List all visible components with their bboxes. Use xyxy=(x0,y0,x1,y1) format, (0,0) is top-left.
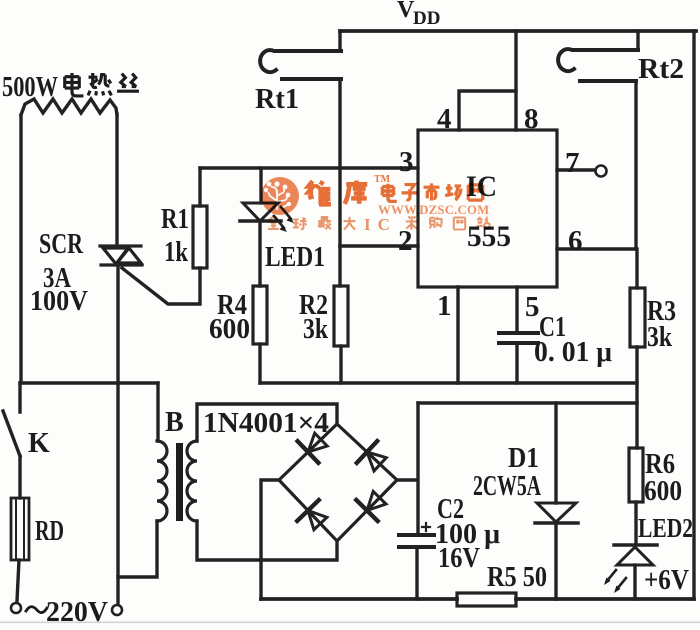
resistor R5 xyxy=(457,593,516,606)
heating element 500W zigzag xyxy=(21,99,117,115)
svg-text:8: 8 xyxy=(524,103,539,135)
svg-text:B: B xyxy=(165,407,184,438)
wire ground rail1 xyxy=(260,381,637,384)
label 220V tilde xyxy=(26,607,47,613)
LED LED2 xyxy=(614,545,657,565)
wire pin8 from VDD rail xyxy=(514,31,517,130)
LED2 emission arrows xyxy=(604,570,626,593)
svg-text:5: 5 xyxy=(525,291,540,323)
resistor R6 xyxy=(629,448,643,502)
svg-text:4: 4 xyxy=(437,103,452,135)
wire right edge vertical xyxy=(692,31,695,599)
svg-text:220V: 220V xyxy=(46,597,108,625)
diode bridge bottom-left xyxy=(297,500,327,530)
resistor R4 xyxy=(253,286,267,344)
resistor RD (fusible) xyxy=(11,498,29,560)
wire R6 to LED2 xyxy=(634,502,637,544)
wire Rt1 feed from VDD rail xyxy=(338,31,341,51)
svg-text:100V: 100V xyxy=(30,286,88,317)
watermark dianzishichangwang xyxy=(382,183,482,201)
wire pin6 stub xyxy=(557,247,636,250)
wire secondary bottom to bridge xyxy=(197,521,337,560)
node 220V right terminal xyxy=(112,605,122,615)
node 220V left terminal xyxy=(11,603,21,613)
switch K xyxy=(3,383,20,456)
wire mains rail xyxy=(20,381,158,384)
wire bottom rail xyxy=(261,597,694,601)
wire K to RD xyxy=(18,456,21,498)
wire +V rail2 xyxy=(418,401,637,404)
watermark logo circle xyxy=(261,177,299,215)
wire C2 to bottom rail xyxy=(415,547,418,599)
diode bridge top-right xyxy=(357,441,387,471)
wire R3 top from pin6 xyxy=(635,249,638,288)
svg-text:3: 3 xyxy=(399,146,414,178)
wire pin1 down xyxy=(456,287,459,383)
capacitor C1 xyxy=(499,333,538,343)
transformer B secondary winding xyxy=(187,441,197,521)
wire R4 to rail1 xyxy=(258,344,261,383)
resistor R2 xyxy=(334,286,348,346)
svg-text:600: 600 xyxy=(644,476,682,507)
svg-text:16V: 16V xyxy=(438,543,480,574)
wire bridge plus to C2 node xyxy=(397,478,417,481)
svg-text:2: 2 xyxy=(398,225,413,257)
wire Rt2 feed from VDD rail xyxy=(636,31,639,50)
svg-text:D1: D1 xyxy=(508,443,539,474)
node pin7 terminal xyxy=(596,166,607,177)
triac SCR xyxy=(100,246,142,265)
scan artifact bottom line xyxy=(0,622,700,624)
wire Rt1 down to pin2 node xyxy=(338,79,341,246)
rectifier bridge diamond xyxy=(279,424,397,541)
wire D1 feed xyxy=(554,403,557,503)
watermark weiku xyxy=(308,181,367,205)
svg-text:SCR: SCR xyxy=(39,229,84,260)
svg-text:LED1: LED1 xyxy=(265,242,325,273)
wire heater left drop xyxy=(19,115,22,383)
LED1 emission arrows xyxy=(274,207,294,232)
svg-text:Rt1: Rt1 xyxy=(255,84,299,115)
wire pin7 stub xyxy=(557,168,594,171)
wire D1 to bottom rail xyxy=(554,523,557,599)
diode bridge bottom-right xyxy=(356,491,386,521)
wire node A vertical to R2 xyxy=(338,246,341,286)
wire R1 top feed xyxy=(198,168,201,206)
svg-text:RD: RD xyxy=(35,516,64,547)
LED LED1 xyxy=(240,203,281,221)
wire C1 to ground rail xyxy=(515,345,518,383)
svg-text:1k: 1k xyxy=(164,237,188,268)
watermark slogan row xyxy=(268,216,490,230)
svg-text:K: K xyxy=(28,428,50,459)
zener D1 xyxy=(535,503,578,523)
C2 plus sign xyxy=(422,523,430,531)
thermistor Rt2 xyxy=(558,49,638,81)
resistor R3 xyxy=(630,288,645,347)
wire triac anode down xyxy=(116,267,119,604)
svg-text:DD: DD xyxy=(413,8,440,29)
svg-text:7: 7 xyxy=(565,147,580,179)
svg-text:R1: R1 xyxy=(161,204,189,235)
transformer B primary winding xyxy=(157,441,167,521)
svg-text:Rt2: Rt2 xyxy=(638,54,684,85)
svg-text:2CW5A: 2CW5A xyxy=(473,471,542,502)
svg-text:R5 50: R5 50 xyxy=(487,562,547,593)
wire pin5 down xyxy=(515,287,518,331)
wire LED1 anode feed xyxy=(259,168,262,203)
svg-text:3k: 3k xyxy=(303,314,328,345)
wire RD to terminal xyxy=(17,560,19,601)
svg-text:600: 600 xyxy=(209,314,250,345)
svg-text:3k: 3k xyxy=(647,322,672,353)
svg-text:TM: TM xyxy=(374,174,391,185)
op-amp IC 555 body xyxy=(418,130,557,287)
svg-text:1N4001×4: 1N4001×4 xyxy=(203,408,329,439)
svg-text:IC: IC xyxy=(364,215,397,234)
wire rail2 left drop xyxy=(416,403,419,533)
wire Rt2 down to pin6 xyxy=(634,81,637,249)
svg-text:500W: 500W xyxy=(2,72,58,103)
wire R1 bottom to gate xyxy=(122,268,200,304)
wire pin3 rail xyxy=(200,166,418,169)
capacitor C2 polarized xyxy=(399,535,434,547)
wire heater right drop to triac xyxy=(115,114,118,245)
diode bridge top-left xyxy=(298,433,328,463)
wire LED2 to bottom rail xyxy=(633,565,636,599)
wire pin4 loop xyxy=(459,91,516,130)
wire pin2 stub xyxy=(340,244,418,247)
transformer B core xyxy=(176,443,183,521)
svg-text:+6V: +6V xyxy=(644,565,689,596)
resistor R1 xyxy=(193,206,207,268)
wire primary bottom xyxy=(118,521,157,577)
label 500W heater chinese xyxy=(65,73,139,96)
wire R2 to rail1 xyxy=(339,346,342,383)
wire secondary top to bridge xyxy=(197,404,337,441)
svg-text:6: 6 xyxy=(568,225,583,257)
wire R3 bottom through rails xyxy=(635,347,638,448)
wire top VDD rail xyxy=(340,29,696,33)
svg-text:1: 1 xyxy=(437,290,452,322)
thermistor Rt1 xyxy=(260,50,341,79)
wire bridge minus to bottom rail xyxy=(261,480,279,599)
svg-text:LED2: LED2 xyxy=(638,513,693,543)
wire LED1 cathode to R4 xyxy=(258,221,261,286)
wire primary top feed xyxy=(156,383,159,441)
svg-text:0. 01 μ: 0. 01 μ xyxy=(534,337,612,368)
